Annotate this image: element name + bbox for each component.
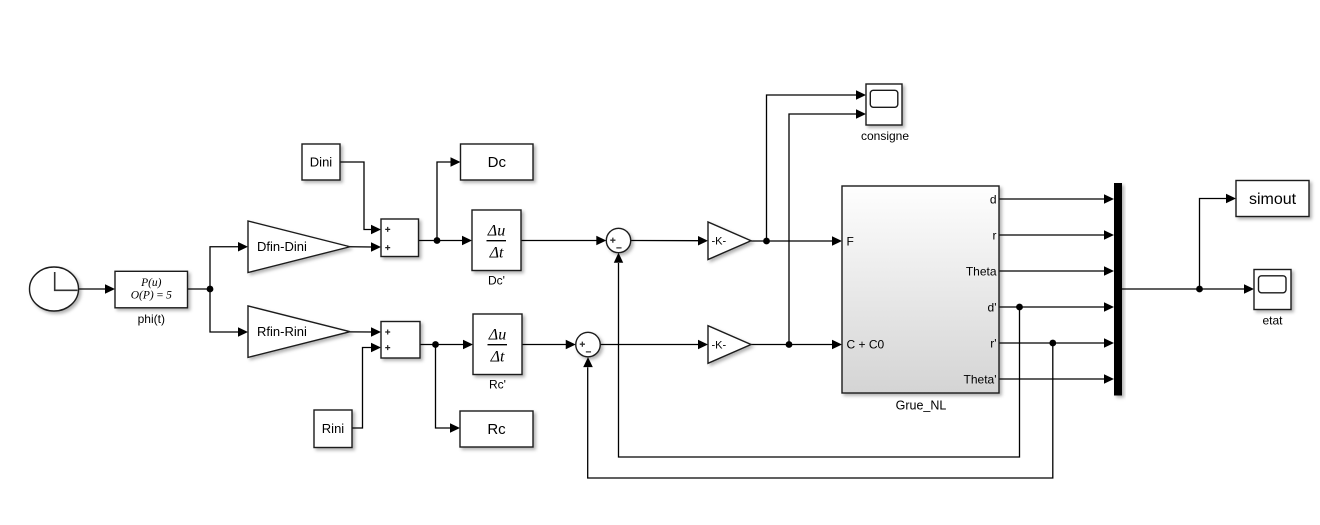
svg-text:P(u): P(u) (140, 277, 162, 289)
arrowhead into Grue_NL F (832, 236, 842, 245)
wire K1 to Grue_NL port F (751, 240, 834, 242)
svg-text:Rini: Rini (322, 421, 345, 436)
arrowhead into Rfin-Rini (238, 327, 248, 336)
gain Dfin-Dini (248, 221, 350, 273)
wire Rfin-Rini to sum S2 (350, 331, 373, 333)
svg-text:Dini: Dini (310, 155, 333, 170)
svg-text:phi(t): phi(t) (138, 312, 165, 326)
arrowhead into sum circle A1 (596, 236, 606, 245)
sum S2 (381, 322, 420, 359)
svg-text:consigne: consigne (861, 129, 909, 143)
sum S1 (381, 219, 419, 257)
arrowhead Dfin into S1 (371, 242, 381, 251)
wire junction down to Rfin-Rini (210, 289, 240, 332)
derivative Rc' (473, 314, 522, 392)
svg-text:Δt: Δt (490, 349, 505, 366)
svg-text:F: F (847, 234, 854, 248)
arrowhead into etat (1244, 284, 1254, 293)
wire Grue_NL d' to mux (999, 306, 1106, 308)
wire Rini to sum S2 (352, 348, 373, 429)
clock block phi source (30, 267, 79, 311)
wire S2 branch down to Rc (436, 345, 452, 429)
arrowhead into derivative Rc' (463, 340, 473, 349)
svg-text:Theta': Theta' (964, 372, 997, 386)
gain Rfin-Rini (248, 306, 350, 358)
junction dot on r' wire (1049, 340, 1056, 347)
arrowhead into Grue_NL C+C0 (832, 340, 842, 349)
arrowhead into consigne input 2 (856, 109, 866, 118)
goto Rc (460, 411, 533, 447)
wire Dfin-Dini to sum S1 (350, 246, 373, 248)
wire derivative Rc' to sum circle A2 (522, 344, 567, 346)
arrowhead Rfin into S2 (371, 327, 381, 336)
wire junction up to Dfin-Dini (210, 247, 240, 289)
arrowhead into K2 (698, 340, 708, 349)
svg-text:O(P) = 5: O(P) = 5 (131, 290, 172, 302)
wire feedback d' to sum circle A1 (619, 263, 1020, 457)
arrowhead r into mux (1104, 230, 1114, 239)
junction dot after S1 (434, 237, 441, 244)
arrowhead into sum circle A2 (566, 340, 576, 349)
wire S1 to derivative Dc' (419, 240, 464, 242)
arrowhead into phi(t) (105, 284, 115, 293)
arrowhead into K1 (698, 236, 708, 245)
svg-text:Theta: Theta (966, 264, 997, 278)
junction dot after K2 (786, 341, 793, 348)
polynomial block phi(t) (115, 271, 188, 326)
junction dot before etat (1196, 286, 1203, 293)
wire K1 junction up to consigne input 1 (767, 95, 858, 241)
gain K2 (708, 326, 751, 364)
wire derivative Dc' to sum circle A1 (521, 240, 598, 242)
svg-text:Δt: Δt (489, 245, 504, 262)
arrowhead into Dfin-Dini (238, 242, 248, 251)
wire Grue_NL r to mux (999, 234, 1106, 236)
wire sum circle A2 to gain K2 (600, 344, 699, 346)
arrowhead into derivative Dc' (462, 236, 472, 245)
svg-text:Δu: Δu (487, 223, 505, 240)
svg-text:simout: simout (1249, 191, 1297, 208)
to-workspace simout (1236, 181, 1309, 217)
arrowhead feedback up into A1 (614, 253, 623, 263)
svg-text:Dc: Dc (488, 154, 507, 171)
svg-text:C + C0: C + C0 (847, 338, 885, 352)
arrowhead Theta into mux (1104, 266, 1114, 275)
arrowhead Theta' into mux (1104, 374, 1114, 383)
constant Dini (302, 144, 340, 180)
mux (1114, 183, 1122, 396)
wire Dini to sum S1 (340, 162, 373, 230)
wire Grue_NL Theta' to mux (999, 378, 1106, 380)
sum circle A1 (606, 228, 630, 252)
svg-text:Dc': Dc' (488, 274, 505, 288)
subsystem Grue_NL (842, 186, 999, 413)
constant Rini (314, 410, 352, 448)
wire Grue_NL d to mux (999, 198, 1106, 200)
arrowhead into simout (1226, 194, 1236, 203)
junction dot after phi(t) (207, 286, 214, 293)
arrowhead r' into mux (1104, 338, 1114, 347)
arrowhead d into mux (1104, 194, 1114, 203)
arrowhead Rini into S2 (371, 343, 381, 352)
svg-text:r: r (993, 228, 997, 242)
svg-text:-K-: -K- (712, 236, 727, 248)
scope consigne (861, 84, 909, 143)
arrowhead into consigne input 1 (856, 90, 866, 99)
svg-text:Dfin-Dini: Dfin-Dini (257, 239, 307, 254)
gain K1 (708, 222, 751, 260)
svg-text:d: d (990, 192, 997, 206)
scope etat (1254, 270, 1291, 328)
wire Grue_NL Theta to mux (999, 270, 1106, 272)
wire clock to phi(t) (79, 288, 106, 290)
svg-text:d': d' (988, 300, 997, 314)
wire Grue_NL r' to mux (999, 342, 1106, 344)
svg-text:Rc: Rc (487, 421, 506, 438)
wire S1 branch up to Dc (437, 162, 452, 241)
derivative Dc' (472, 210, 521, 288)
wire sum circle A1 to gain K1 (631, 240, 700, 242)
wire mux to etat (1122, 288, 1245, 290)
svg-text:Rfin-Rini: Rfin-Rini (257, 324, 307, 339)
junction dot on d' wire (1016, 304, 1023, 311)
svg-text:Grue_NL: Grue_NL (896, 399, 947, 413)
wire K2 to Grue_NL port C+C0 (751, 344, 834, 346)
wire S2 to derivative Rc' (420, 344, 465, 346)
arrowhead Dini into S1 (371, 225, 381, 234)
svg-text:etat: etat (1262, 314, 1283, 328)
wire phi(t) to junction (188, 288, 211, 290)
arrowhead d' into mux (1104, 302, 1114, 311)
arrowhead into Dc (451, 157, 461, 166)
sum circle A2 (576, 332, 601, 357)
wire junction up to simout (1200, 199, 1228, 290)
junction dot after K1 (763, 238, 770, 245)
wire K2 junction up to consigne input 2 (789, 114, 858, 345)
wire feedback r' to sum circle A2 (588, 343, 1053, 478)
svg-text:Δu: Δu (488, 327, 506, 344)
svg-text:-K-: -K- (712, 339, 727, 351)
svg-text:Rc': Rc' (489, 378, 506, 392)
junction dot after S2 (432, 341, 439, 348)
goto Dc (461, 144, 534, 180)
arrowhead into Rc (450, 423, 460, 432)
arrowhead feedback up into A2 (583, 357, 593, 367)
svg-text:r': r' (990, 336, 996, 350)
